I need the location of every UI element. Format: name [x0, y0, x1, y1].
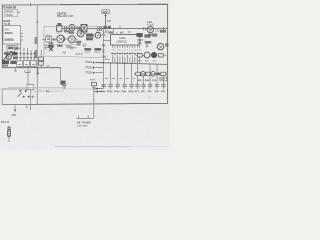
svg-text:12: 12	[139, 49, 141, 51]
IF box	[7, 46, 15, 52]
tuner unit B102 cluster	[46, 36, 52, 42]
svg-text:9: 9	[132, 49, 133, 51]
IC top pin marks	[114, 29, 121, 35]
B+ wire	[56, 28, 167, 30]
faint scan line	[0, 88, 98, 90]
svg-text:(22): (22)	[155, 91, 159, 93]
electrolytic caps row	[101, 85, 133, 89]
stub below wire	[14, 68, 17, 71]
connector box J3	[31, 61, 37, 67]
svg-text:(v): (v)	[17, 11, 20, 14]
transistor Q202	[157, 43, 164, 50]
cap marks right of IF box	[15, 47, 20, 50]
svg-text:POWER: POWER	[82, 122, 91, 124]
transistor Q205	[141, 72, 146, 77]
box edge extension	[30, 105, 32, 110]
IC201	[111, 35, 140, 45]
svg-text:1: 1	[112, 49, 113, 51]
svg-text:PRE-AMP UNIT: PRE-AMP UNIT	[57, 15, 74, 18]
svg-text:R215: R215	[90, 80, 96, 82]
dropper value dashes	[105, 78, 135, 80]
pin numbers	[112, 49, 141, 51]
capacitor C211	[108, 85, 112, 87]
transistor Q203	[144, 52, 150, 58]
capacitor C210	[101, 85, 105, 87]
feed line left of IC	[102, 29, 104, 88]
svg-text:X1 4.5: X1 4.5	[76, 54, 83, 56]
svg-text:7: 7	[127, 49, 128, 51]
trimmer RT101	[48, 45, 53, 48]
svg-text:TP203: TP203	[85, 72, 92, 74]
transistor Q104	[77, 30, 84, 37]
svg-text:(10µ): (10µ)	[114, 91, 119, 93]
label AGC rows	[2, 60, 9, 64]
border frame top	[2, 3, 168, 6]
pre-amp unit box	[44, 26, 107, 57]
transistor Q204 dark	[151, 52, 156, 57]
svg-text:(10): (10)	[141, 91, 145, 93]
tuner module box	[3, 26, 21, 44]
capacitor C102	[65, 26, 67, 30]
pin label dashes	[111, 52, 140, 55]
connector arrows P202	[95, 89, 103, 92]
bus under IC	[96, 63, 167, 65]
svg-text:(22µ): (22µ)	[121, 91, 126, 93]
stub cap	[78, 27, 80, 30]
capacitor C215	[135, 85, 139, 87]
svg-text:6: 6	[124, 49, 125, 51]
ladder bottom caps	[135, 85, 165, 89]
svg-text:120V 60Hz: 120V 60Hz	[77, 126, 88, 128]
droppers below bus	[110, 63, 131, 84]
junction dot	[105, 28, 106, 29]
internal bias wire	[44, 44, 76, 46]
svg-text:(10µ): (10µ)	[128, 91, 133, 93]
AC input wire	[77, 117, 94, 119]
resistor block R115/C116	[86, 34, 93, 37]
PWB divider wire	[36, 5, 38, 104]
svg-text:Q10x: Q10x	[77, 28, 83, 30]
wire row y55	[136, 54, 168, 56]
component cluster on B+	[103, 26, 106, 29]
transistor Q106	[57, 35, 64, 42]
B201 transformer label	[2, 60, 6, 63]
capacitor C216	[141, 85, 145, 87]
svg-text:C120: C120	[84, 52, 90, 54]
svg-text:2SA733: 2SA733	[57, 11, 67, 15]
tuner pin stubs	[21, 34, 23, 41]
svg-text:10: 10	[134, 49, 136, 51]
stacked resistors left mid	[39, 57, 44, 61]
ticks on feed line	[102, 34, 105, 56]
border frame left	[1, 5, 3, 68]
capacitor marks	[94, 34, 95, 37]
transistor Q206	[151, 72, 156, 77]
arrowhead	[105, 15, 107, 17]
svg-text:2000A: 2000A	[5, 31, 13, 35]
dash row 1	[19, 53, 35, 55]
connector box J2	[24, 61, 30, 67]
svg-text:245: 245	[12, 113, 17, 117]
capacitor C218	[155, 85, 159, 87]
comb verticals from IC pins to bus	[112, 55, 139, 63]
svg-text:R223: R223	[137, 40, 143, 42]
svg-text:PR B: PR B	[45, 46, 51, 48]
ladder row right	[134, 73, 167, 75]
ground bus wire	[2, 103, 167, 104]
svg-text:12V: 12V	[103, 10, 108, 14]
svg-text:TP201: TP201	[85, 62, 92, 64]
wire vertical x31	[30, 50, 32, 68]
ladder verticals	[137, 64, 163, 85]
connector pin dots	[18, 63, 34, 65]
wire AGC horizontal	[2, 67, 61, 69]
svg-text:C121: C121	[94, 52, 100, 54]
junction tick	[119, 25, 121, 28]
24V label	[160, 77, 167, 81]
svg-text:(10): (10)	[161, 91, 165, 93]
svg-text:3: 3	[117, 49, 118, 51]
IF transformer T102	[81, 24, 87, 32]
polarized cap C130	[60, 81, 65, 85]
svg-text:YK00x: YK00x	[5, 13, 13, 17]
wire vertical x27.5	[27, 48, 29, 68]
svg-text:(AN5512): (AN5512)	[117, 40, 127, 43]
svg-text:B2x1 W: B2x1 W	[1, 122, 10, 124]
faint bottom rule	[55, 146, 132, 148]
speck marks above IC	[121, 32, 124, 34]
bus junction dots	[103, 62, 104, 63]
resistor R230	[136, 72, 140, 75]
stub below power box	[14, 105, 16, 110]
tick on divider	[36, 21, 39, 23]
border frame right	[166, 4, 168, 104]
transistor Q101	[6, 55, 11, 60]
svg-text:8: 8	[129, 49, 130, 51]
resistor	[158, 54, 163, 57]
transistor Q201	[147, 26, 153, 32]
resistor R231	[146, 72, 150, 75]
wire vertical x20.5	[20, 44, 22, 68]
svg-text:AC: AC	[77, 121, 81, 124]
ticks left of bus	[15, 45, 18, 49]
tuning arrow cluster B101	[3, 51, 12, 61]
relay contacts inside	[19, 90, 21, 92]
plus junction mark	[97, 26, 99, 31]
cluster C121	[94, 48, 101, 51]
wire corner to ground	[60, 68, 62, 81]
wire J2 to P1	[27, 68, 29, 85]
svg-text:5: 5	[122, 49, 123, 51]
cap left of Q201	[144, 27, 146, 30]
IC bottom pins	[112, 45, 139, 48]
marks under q106	[58, 44, 60, 47]
svg-text:(47µ): (47µ)	[107, 90, 112, 93]
connector box P1	[27, 85, 34, 90]
wire linking q103-q105	[75, 33, 103, 39]
connector box J1	[17, 61, 23, 67]
tuner text block 900C	[4, 9, 17, 16]
capacitor C217	[148, 85, 152, 87]
svg-text:(4.7): (4.7)	[135, 90, 140, 93]
wire vertical x24	[23, 48, 25, 68]
capacitor C219	[161, 85, 165, 87]
resistor R232	[161, 72, 166, 75]
svg-text:TP202: TP202	[85, 67, 92, 69]
cap value labels row	[100, 90, 133, 93]
cluster C120	[84, 48, 91, 51]
divider smudge text vertical	[35, 37, 38, 44]
resistor R216	[91, 82, 96, 85]
svg-text:24V: 24V	[160, 79, 165, 81]
svg-text:2: 2	[114, 49, 115, 51]
transistor Q102	[69, 25, 75, 31]
arrow stub on divider	[37, 68, 39, 74]
coil T101	[57, 25, 62, 31]
wire down from fuse	[93, 91, 95, 118]
right column labels	[136, 33, 142, 37]
transistor Q105	[95, 33, 101, 39]
capacitor C205	[100, 26, 102, 30]
dash row 2	[19, 56, 35, 58]
12V feed wire	[105, 14, 107, 29]
ladder cap labels	[135, 90, 165, 93]
svg-text:10K: 10K	[137, 43, 142, 45]
capacitor C213	[122, 85, 126, 87]
capacitor C212	[115, 85, 119, 87]
resistor row y55	[137, 54, 142, 57]
transistor Q103	[68, 36, 75, 43]
capacitor C214	[129, 85, 133, 87]
crystal C11 block	[76, 41, 81, 43]
ground G1	[62, 86, 66, 89]
svg-text:4: 4	[119, 49, 120, 51]
fuse F202 bottom left	[8, 126, 10, 142]
faint scan bands	[8, 86, 64, 88]
12V supply label	[102, 10, 110, 14]
power box B201	[2, 89, 30, 105]
svg-text:(47): (47)	[148, 90, 152, 93]
labels under transistors	[58, 45, 63, 47]
diode cluster	[156, 72, 160, 75]
stub right of box	[31, 95, 35, 98]
tick on top border	[30, 3, 32, 7]
svg-text:12V: 12V	[107, 20, 112, 23]
wire vertical x34.5	[34, 52, 36, 68]
